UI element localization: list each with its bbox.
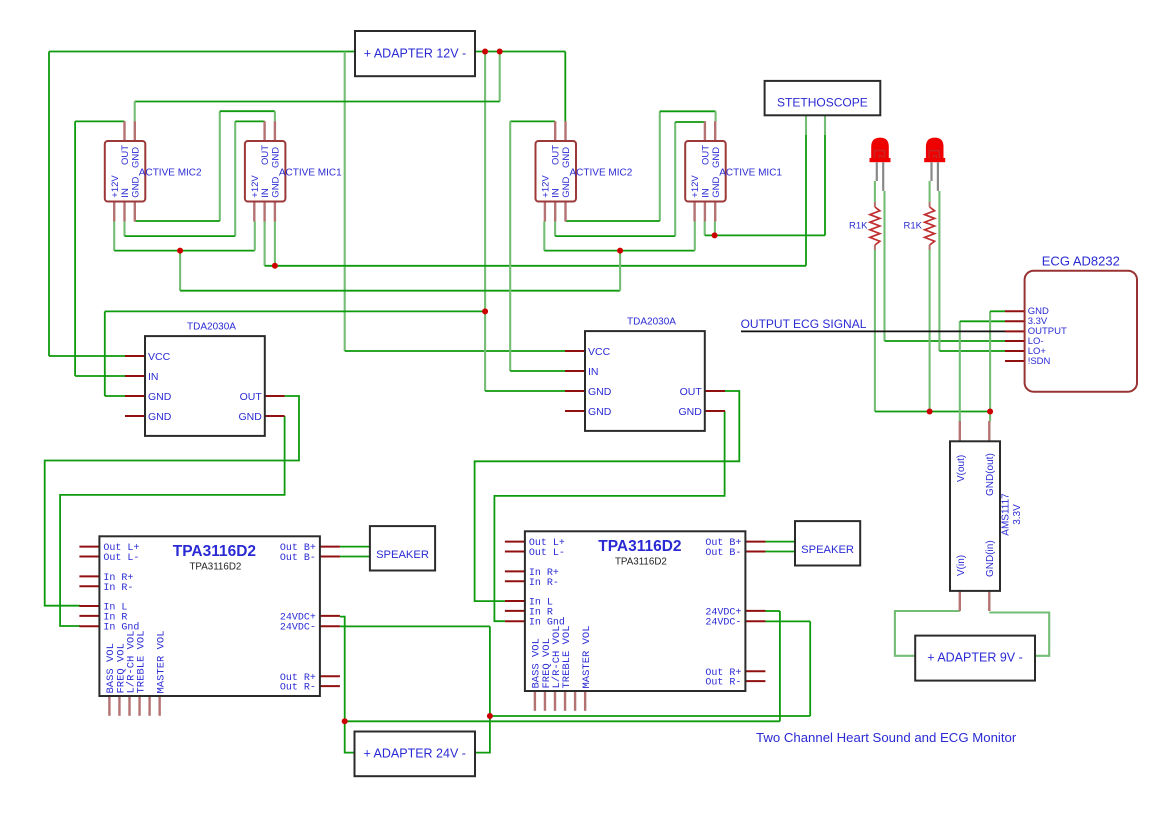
svg-text:GND: GND (678, 406, 702, 418)
svg-text:In R-: In R- (529, 578, 559, 589)
svg-text:Out B-: Out B- (280, 553, 316, 564)
svg-text:R1K: R1K (849, 221, 868, 232)
svg-text:OUT: OUT (260, 145, 271, 165)
svg-text:OUT: OUT (240, 391, 263, 403)
svg-text:IN: IN (551, 188, 562, 198)
svg-text:TDA2030A: TDA2030A (187, 322, 236, 333)
svg-text:TPA3116D2: TPA3116D2 (189, 562, 241, 573)
svg-text:TPA3116D2: TPA3116D2 (173, 543, 256, 560)
svg-text:+ ADAPTER 9V -: + ADAPTER 9V - (927, 651, 1023, 665)
svg-text:Out B-: Out B- (705, 548, 741, 559)
svg-text:IN: IN (120, 188, 131, 198)
svg-text:TDA2030A: TDA2030A (627, 317, 676, 328)
svg-text:VCC: VCC (148, 351, 171, 363)
svg-text:IN: IN (148, 371, 159, 383)
svg-text:GND: GND (711, 147, 722, 168)
svg-text:GND(out): GND(out) (985, 453, 996, 496)
svg-text:TREBLE VOL: TREBLE VOL (561, 625, 573, 688)
svg-text:24VDC-: 24VDC- (280, 623, 316, 634)
svg-text:GND: GND (130, 176, 141, 197)
svg-text:IN: IN (588, 366, 599, 378)
svg-text:In R-: In R- (103, 583, 133, 594)
svg-text:ACTIVE MIC1: ACTIVE MIC1 (719, 168, 782, 179)
svg-text:GND: GND (561, 176, 572, 197)
svg-text:TPA3116D2: TPA3116D2 (615, 557, 667, 568)
svg-text:Out R-: Out R- (280, 683, 316, 694)
svg-text:GND: GND (588, 406, 612, 418)
svg-text:SPEAKER: SPEAKER (801, 544, 854, 556)
svg-text:OUT: OUT (551, 145, 562, 165)
svg-text:GND: GND (588, 386, 612, 398)
svg-text:TPA3116D2: TPA3116D2 (598, 538, 681, 555)
svg-text:GND(in): GND(in) (985, 540, 996, 577)
svg-text:Out R-: Out R- (705, 678, 741, 689)
svg-text:GND: GND (271, 176, 282, 197)
svg-text:MASTER VOL: MASTER VOL (581, 625, 593, 688)
svg-text:GND: GND (148, 391, 172, 403)
svg-text:IN: IN (260, 188, 271, 198)
svg-text:ACTIVE MIC1: ACTIVE MIC1 (279, 168, 342, 179)
svg-text:V(out): V(out) (956, 455, 967, 482)
svg-text:OUT: OUT (700, 145, 711, 165)
svg-text:Out L-: Out L- (103, 553, 139, 564)
svg-text:ECG AD8232: ECG AD8232 (1042, 254, 1120, 269)
svg-text:+ ADAPTER 12V -: + ADAPTER 12V - (364, 47, 466, 61)
svg-text:OUT: OUT (120, 145, 131, 165)
svg-text:Two Channel Heart Sound and EC: Two Channel Heart Sound and ECG Monitor (756, 730, 1017, 745)
svg-text:24VDC-: 24VDC- (705, 618, 741, 629)
svg-text:GND: GND (130, 147, 141, 168)
svg-text:IN: IN (700, 188, 711, 198)
svg-text:GND: GND (238, 411, 262, 423)
svg-text:V(in): V(in) (956, 555, 967, 576)
svg-text:GND: GND (148, 411, 172, 423)
svg-text:GND: GND (561, 147, 572, 168)
svg-text:SPEAKER: SPEAKER (376, 549, 429, 561)
svg-text:TREBLE VOL: TREBLE VOL (135, 630, 147, 693)
svg-text:Out L-: Out L- (529, 548, 565, 559)
svg-text:AMS1117: AMS1117 (1001, 493, 1012, 536)
svg-text:MASTER VOL: MASTER VOL (156, 630, 168, 693)
svg-text:ACTIVE MIC2: ACTIVE MIC2 (139, 168, 202, 179)
svg-text:R1K: R1K (904, 221, 923, 232)
svg-text:ACTIVE MIC2: ACTIVE MIC2 (570, 168, 633, 179)
svg-text:VCC: VCC (588, 346, 611, 358)
svg-text:OUT: OUT (680, 386, 703, 398)
svg-text:3.3V: 3.3V (1012, 504, 1023, 525)
svg-text:GND: GND (271, 147, 282, 168)
svg-text:STETHOSCOPE: STETHOSCOPE (777, 95, 868, 109)
svg-text:GND: GND (711, 176, 722, 197)
svg-text:!SDN: !SDN (1028, 356, 1051, 367)
svg-text:+ ADAPTER 24V -: + ADAPTER 24V - (363, 747, 465, 761)
svg-text:OUTPUT ECG SIGNAL: OUTPUT ECG SIGNAL (741, 317, 867, 331)
